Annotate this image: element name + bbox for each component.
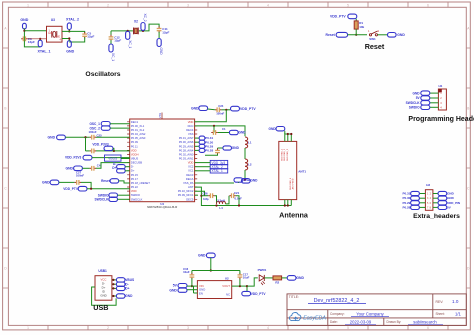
wire osc2 left: [111, 30, 133, 32]
wire R2 to GND: [282, 277, 288, 279]
svg-text:SWDCLK: SWDCLK: [95, 197, 110, 201]
svg-text:VDD_PTV: VDD_PTV: [251, 292, 267, 296]
svg-text:OSC_1: OSC_1: [89, 122, 100, 126]
capacitor: [90, 135, 96, 140]
svg-text:P0.04_AIN2: P0.04_AIN2: [131, 132, 146, 136]
svg-text:P0.28_AIN4: P0.28_AIN4: [179, 148, 194, 152]
svg-text:DECUSB: DECUSB: [131, 161, 142, 165]
switch SW1: [369, 31, 377, 36]
wire C4 to DECUSB: [96, 163, 130, 169]
svg-text:5V: 5V: [447, 206, 451, 210]
rail end: [290, 205, 292, 207]
svg-text:A: A: [4, 27, 7, 31]
wire H1 pin1: [430, 92, 438, 94]
wire pin4 to GND flag: [62, 39, 69, 41]
svg-text:6: 6: [430, 202, 432, 205]
svg-text:B: B: [4, 107, 6, 111]
svg-text:P0.02_AIN0: P0.02_AIN0: [179, 152, 194, 156]
junction DCC: [213, 125, 215, 127]
svg-text:VDD: VDD: [188, 120, 194, 124]
EasyEDA logo: [289, 313, 326, 322]
svg-text:GND: GND: [413, 91, 421, 95]
svg-text:XTAL_2: XTAL_2: [66, 18, 79, 22]
wire OSC_2: [110, 127, 130, 129]
capacitor: [21, 36, 27, 41]
svg-text:1/1: 1/1: [455, 312, 461, 317]
svg-text:100nF: 100nF: [76, 174, 84, 178]
capacitor: [75, 180, 81, 185]
svg-text:P0.31_AIN7: P0.31_AIN7: [179, 136, 194, 140]
usb shield loop: [92, 287, 117, 305]
header H1: [438, 89, 446, 110]
stub vss_pa flag: [237, 181, 239, 184]
svg-text:VSS: VSS: [158, 113, 162, 119]
svg-text:VDD: VDD: [188, 161, 194, 165]
wire crystal to C5: [62, 31, 85, 33]
junction ant bottom1: [284, 204, 286, 206]
wire GND to reg: [187, 289, 197, 291]
wire rail to C3: [86, 150, 90, 152]
svg-text:10k: 10k: [359, 25, 364, 29]
svg-text:Sheet:: Sheet:: [436, 312, 445, 316]
net flag D+ usb: [116, 286, 125, 290]
wire H3 right 4: [433, 206, 438, 208]
svg-text:4: 4: [430, 197, 432, 200]
svg-text:SWDIO: SWDIO: [131, 193, 140, 197]
junction VIN: [191, 285, 193, 287]
junction ant top2: [290, 133, 292, 135]
svg-text:D+: D+: [125, 287, 129, 291]
svg-text:USB1: USB1: [98, 269, 107, 273]
svg-text:12pF: 12pF: [28, 40, 35, 44]
svg-text:P0.17: P0.17: [131, 177, 139, 181]
usb junction D+: [112, 287, 114, 289]
header H3: [425, 190, 433, 211]
wire H3 left 4: [419, 206, 425, 208]
svg-text:GND: GND: [55, 37, 60, 39]
capacitor: [82, 32, 87, 38]
wire DCC down to C22: [213, 126, 215, 133]
wire osc2 right: [139, 24, 159, 31]
svg-text:GND: GND: [20, 18, 28, 22]
svg-text:USB: USB: [93, 303, 108, 312]
svg-text:XC1: XC1: [188, 169, 194, 173]
svg-text:GND: GND: [198, 254, 206, 258]
usb junction VBUS: [112, 279, 114, 281]
stub XTAL_1: [39, 39, 41, 40]
net flag 5V: [178, 284, 187, 288]
net flag OSC_2: [101, 126, 110, 130]
net flag XC_1: [126, 31, 132, 48]
svg-text:3: 3: [440, 101, 442, 105]
svg-text:0.8p: 0.8p: [203, 197, 209, 201]
capacitor: [215, 107, 221, 112]
svg-text:0.5pF: 0.5pF: [235, 197, 243, 201]
svg-text:4: 4: [267, 3, 269, 7]
svg-text:GND PAD_3: GND PAD_3: [286, 148, 289, 161]
svg-text:5V: 5V: [173, 284, 178, 288]
net flag GND vss_pa: [234, 178, 243, 182]
svg-text:TITLE:: TITLE:: [289, 295, 299, 299]
net flag GND L rail: [241, 179, 250, 184]
svg-text:PWR1: PWR1: [258, 268, 267, 272]
svg-text:1: 1: [49, 29, 51, 33]
svg-text:100nF: 100nF: [216, 112, 224, 116]
wire left rail down: [85, 137, 87, 151]
wire rail to MCU VDD: [195, 110, 227, 122]
svg-text:4: 4: [267, 326, 269, 330]
crystal U3: [47, 26, 63, 42]
net flag P0.29: [199, 144, 205, 148]
svg-text:U3: U3: [51, 18, 55, 22]
net flag GND usb: [116, 294, 125, 298]
net flag VDD_P2V3: [83, 155, 92, 160]
wire C23 to GND: [218, 147, 223, 149]
wire SWDCLK: [118, 198, 130, 200]
svg-text:2: 2: [107, 326, 109, 330]
ant stub2: [287, 134, 289, 141]
svg-text:C4: C4: [97, 163, 101, 167]
wire to VDD_PTV flag: [246, 286, 248, 291]
wire H3 left 3: [419, 202, 425, 204]
wire to C23: [217, 148, 219, 149]
svg-text:SWDIO: SWDIO: [409, 106, 420, 110]
svg-text:XTAL_1: XTAL_1: [37, 49, 50, 53]
net flag Reset: [336, 32, 348, 37]
svg-text:1: 1: [27, 326, 29, 330]
net flag GND reset: [388, 33, 397, 38]
svg-text:P0.10_NFC2: P0.10_NFC2: [178, 189, 194, 193]
net flag P0.31: [199, 136, 205, 140]
wire P0.30: [195, 141, 200, 143]
wire P0.28: [195, 149, 200, 151]
net flag XTAL_1: [38, 40, 42, 47]
net flag SWDCLK: [109, 197, 118, 201]
stub to R1: [355, 19, 357, 21]
svg-text:Extra_headers: Extra_headers: [413, 213, 460, 220]
junction vdd flag: [246, 285, 248, 287]
wire VDD_3v3: [195, 162, 211, 164]
wire H1 pin3: [430, 102, 438, 104]
wire P0.31: [195, 137, 200, 139]
svg-text:VDDH: VDDH: [131, 152, 139, 156]
wire VSS_PA: [195, 182, 234, 184]
svg-text:GND: GND: [243, 178, 251, 182]
wire C16 down: [191, 278, 193, 286]
svg-text:1: 1: [27, 3, 29, 7]
svg-text:P0.00_XL1: P0.00_XL1: [131, 124, 145, 128]
MCU right pin names: [178, 120, 194, 202]
net flag VDD_PTV mcu: [78, 186, 87, 191]
svg-text:P0.28: P0.28: [402, 206, 410, 210]
svg-text:5: 5: [347, 3, 349, 7]
usb wire GND: [112, 295, 117, 297]
wire EN tie: [193, 286, 195, 293]
ant bstub1: [284, 200, 286, 206]
svg-text:X2: X2: [134, 19, 138, 23]
wire XTAL_1: [195, 170, 211, 172]
svg-text:Programming Header: Programming Header: [408, 116, 474, 123]
wire to crystal pin1: [24, 30, 46, 32]
junction left rail top: [84, 136, 86, 138]
net flag XC_2: [141, 14, 147, 31]
svg-text:L2: L2: [248, 163, 252, 167]
net flag GND (osc1 top-left): [23, 23, 27, 29]
capacitor: [229, 193, 235, 198]
svg-text:ANT FEED: ANT FEED: [292, 178, 295, 189]
svg-text:VDD_PTV: VDD_PTV: [330, 15, 346, 19]
svg-text:VBUS: VBUS: [131, 157, 139, 161]
svg-text:XTAL_1: XTAL_1: [212, 169, 224, 173]
net flag GND reg top: [206, 253, 215, 258]
svg-text:DCC: DCC: [188, 124, 194, 128]
net flag GND mcu-left 3: [50, 180, 59, 185]
MCU top VSS pin: [161, 113, 163, 120]
net flag D+: [117, 169, 126, 173]
svg-text:P0.05_AIN3: P0.05_AIN3: [131, 136, 146, 140]
svg-text:Your Company: Your Company: [356, 312, 384, 317]
svg-text:EasyEDA: EasyEDA: [303, 316, 326, 322]
svg-text:Company:: Company:: [330, 312, 345, 316]
svg-text:GND: GND: [48, 136, 56, 140]
svg-text:GND: GND: [42, 181, 50, 185]
svg-text:SWDCLK: SWDCLK: [131, 197, 143, 201]
wire H3 left 2: [419, 197, 425, 199]
svg-text:GND: GND: [100, 294, 106, 298]
wire to C16: [191, 271, 193, 274]
wire L2 down: [244, 170, 246, 180]
wire C3 to MCU VDD: [96, 150, 130, 152]
wire C5 to GND: [69, 37, 84, 42]
svg-text:L4: L4: [219, 206, 223, 210]
junction osc1 left: [23, 30, 25, 32]
wire H3 right 3: [433, 202, 438, 204]
svg-text:REV:: REV:: [436, 300, 444, 304]
net flag GND mcu-left 1: [57, 135, 66, 140]
wire C22 to GND: [218, 132, 230, 134]
svg-text:P0.30_AIN6: P0.30_AIN6: [179, 140, 194, 144]
svg-text:2022-03-09: 2022-03-09: [350, 320, 372, 325]
svg-text:P0.22: P0.22: [131, 185, 139, 189]
svg-text:GND: GND: [159, 48, 163, 56]
junction ant bottom2: [287, 204, 289, 206]
svg-text:VSS_PA: VSS_PA: [183, 181, 193, 185]
svg-text:H1: H1: [438, 84, 442, 88]
wire GND to XTAL_1 bottom: [24, 28, 40, 47]
svg-text:SWDCLK: SWDCLK: [406, 101, 421, 105]
wire C24 to junction: [221, 109, 230, 111]
regulator U2: [197, 281, 231, 299]
svg-text:2: 2: [107, 3, 109, 7]
antenna ANT1: [279, 141, 297, 199]
net flag GND mid: [223, 146, 232, 150]
svg-text:EN: EN: [199, 292, 203, 296]
net flag D- usb: [116, 282, 125, 286]
svg-text:GND: GND: [296, 276, 304, 280]
wire NFC2: [195, 191, 205, 196]
wire GND to C24: [208, 108, 215, 111]
junction VDD_P3V3: [113, 150, 115, 152]
junction ant top: [287, 133, 289, 135]
wire H3 right 2: [433, 197, 438, 199]
net flags VDD_3v3 XTAL_2 XTAL_1 (rect): [210, 160, 228, 164]
svg-text:P0.03_AIN1: P0.03_AIN1: [179, 157, 194, 161]
svg-text:5V: 5V: [416, 96, 421, 100]
net flag VDD_P3V3: [104, 146, 113, 150]
wire C25 to MCU: [96, 136, 130, 138]
svg-text:sabiinsearch: sabiinsearch: [413, 320, 437, 325]
capacitor: [211, 130, 217, 135]
wire SWDIO: [118, 194, 130, 196]
wire OSC_1: [110, 123, 130, 125]
svg-text:12pF: 12pF: [114, 39, 121, 43]
wire C11 to GND: [158, 32, 160, 39]
junction reg top rail: [210, 269, 212, 271]
svg-text:GND: GND: [169, 288, 177, 292]
svg-text:Date:: Date:: [330, 320, 338, 324]
capacitor: [215, 148, 220, 154]
wire 5V to VIN: [187, 285, 197, 287]
svg-text:H3: H3: [426, 183, 430, 187]
svg-text:XC_2: XC_2: [143, 14, 147, 22]
capacitor: [208, 193, 214, 198]
wire SW1 to GND: [378, 34, 388, 36]
wire LED to R2: [264, 277, 273, 279]
wire VDDH row: [92, 157, 130, 159]
crystal X2: [134, 28, 139, 35]
wire L4 to C21: [226, 196, 230, 204]
junction reset node: [355, 34, 357, 36]
net flag GND pwr: [287, 276, 296, 281]
wire GND to C4: [82, 167, 89, 169]
svg-text:VOUT: VOUT: [222, 284, 230, 288]
svg-text:D: D: [4, 267, 7, 271]
wire VDD_PTV to MCU: [87, 188, 130, 190]
svg-text:ANT1: ANT1: [298, 169, 306, 173]
junction L2 gnd: [244, 179, 246, 181]
svg-text:VSS: VSS: [188, 132, 194, 136]
resistor: [273, 276, 282, 280]
svg-text:C: C: [467, 187, 470, 191]
svg-text:VDD_PTV: VDD_PTV: [240, 107, 256, 111]
wire Reset to nRESET: [119, 181, 130, 183]
svg-text:GND: GND: [125, 294, 133, 298]
svg-text:3.3nH: 3.3nH: [217, 199, 225, 203]
svg-text:Oscillators: Oscillators: [85, 71, 120, 78]
svg-text:P0.18_nRESET: P0.18_nRESET: [131, 181, 150, 185]
reg top rail: [192, 270, 240, 272]
svg-text:B: B: [467, 107, 469, 111]
wire C12 to flag: [110, 40, 112, 44]
svg-text:P0.15: P0.15: [131, 173, 139, 177]
svg-text:10uF: 10uF: [183, 270, 190, 274]
svg-text:1: 1: [440, 91, 442, 95]
net flag GND antenna: [276, 127, 285, 131]
svg-text:DECA: DECA: [186, 177, 194, 181]
svg-text:U2: U2: [225, 276, 229, 280]
svg-text:VDD_PTV: VDD_PTV: [63, 187, 79, 191]
svg-text:VDD: VDD: [131, 148, 137, 152]
svg-text:P0.01_XL2: P0.01_XL2: [131, 128, 145, 132]
svg-text:P0.11: P0.11: [131, 144, 138, 148]
svg-text:GND: GND: [191, 106, 199, 110]
junction L4 left: [215, 204, 217, 206]
svg-text:6: 6: [427, 326, 429, 330]
wire C23 tail: [205, 154, 218, 156]
wire H3 right 1: [433, 193, 438, 195]
svg-text:GND: GND: [269, 127, 277, 131]
wire R1 to node: [355, 29, 357, 35]
net flag VDD_PTV top: [231, 106, 240, 111]
wire to SW1: [348, 34, 367, 36]
junction C21 rail: [238, 204, 240, 206]
svg-text:5: 5: [347, 326, 349, 330]
svg-text:P0.29_AIN5: P0.29_AIN5: [179, 144, 194, 148]
usb wire D-: [112, 283, 117, 285]
net flag SWDIO: [109, 193, 118, 197]
MCU left pin names: [131, 120, 150, 202]
resistor: [354, 21, 358, 29]
wire GND to C25: [65, 136, 89, 138]
net flag GND reg left: [178, 288, 187, 292]
svg-text:C1: C1: [222, 127, 226, 131]
USB connector USB1: [95, 276, 112, 301]
svg-text:12pF: 12pF: [87, 35, 94, 39]
svg-text:A: A: [467, 27, 470, 31]
wire ANT to bottom rail: [195, 187, 292, 205]
capacitor: [190, 273, 195, 279]
svg-text:L1: L1: [248, 141, 252, 145]
svg-text:Drawn By:: Drawn By:: [387, 320, 402, 324]
wire VDD_P3V3 flag to rail: [112, 148, 115, 151]
svg-text:GND: GND: [48, 33, 53, 35]
net flag GND top rail: [199, 106, 208, 111]
usb wire VBUS: [112, 279, 117, 281]
capacitor: [238, 273, 243, 279]
capacitor: [90, 166, 96, 171]
wire to LED: [247, 278, 258, 286]
net flag P0.30: [199, 140, 205, 144]
wire to C12: [110, 31, 112, 36]
svg-text:DEC3: DEC3: [186, 173, 194, 177]
svg-text:Reset: Reset: [101, 179, 111, 183]
net flag XC_1 left: [109, 44, 115, 61]
svg-text:GND: GND: [447, 192, 455, 196]
capacitor: [157, 26, 162, 32]
net flag VDD_PTV out: [242, 291, 251, 295]
svg-text:GND PAD_4: GND PAD_4: [289, 177, 292, 190]
svg-text:VDD_PIN: VDD_PIN: [447, 201, 460, 205]
svg-text:VDD: VDD: [131, 189, 137, 193]
svg-text:2: 2: [440, 96, 442, 100]
svg-text:6: 6: [427, 3, 429, 7]
svg-text:8: 8: [430, 206, 432, 209]
svg-text:NRF52833-QDAA-B-R: NRF52833-QDAA-B-R: [147, 205, 178, 209]
svg-text:C26: C26: [202, 191, 208, 195]
inductor: [217, 201, 226, 204]
svg-text:P0.09: P0.09: [131, 140, 139, 144]
svg-text:3: 3: [187, 326, 189, 330]
wire feed to C26: [201, 195, 208, 197]
svg-text:D+: D+: [112, 166, 116, 170]
wire L1 to L2: [244, 148, 246, 159]
svg-text:P0.28: P0.28: [205, 149, 213, 153]
usb junction D-: [112, 283, 114, 285]
net flag VDD_PTV reset: [348, 14, 357, 19]
junction osc2 XC_2: [142, 30, 144, 32]
net flag D-: [117, 165, 126, 169]
wire C27 to VDD rail: [81, 182, 91, 188]
